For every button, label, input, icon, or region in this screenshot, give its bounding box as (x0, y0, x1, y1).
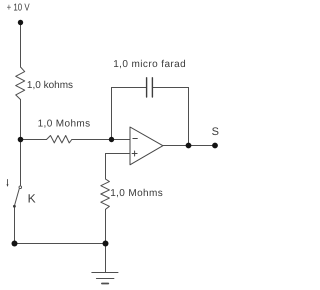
svg-text:K: K (28, 192, 36, 206)
svg-text:S: S (212, 126, 219, 138)
svg-text:1,0 Mohms: 1,0 Mohms (38, 119, 91, 130)
svg-text:1,0 kohms: 1,0 kohms (27, 80, 73, 91)
svg-text:+ 10 V: + 10 V (7, 3, 30, 14)
svg-text:1,0 Mohms: 1,0 Mohms (110, 188, 163, 199)
svg-text:1,0 micro farad: 1,0 micro farad (113, 59, 186, 70)
